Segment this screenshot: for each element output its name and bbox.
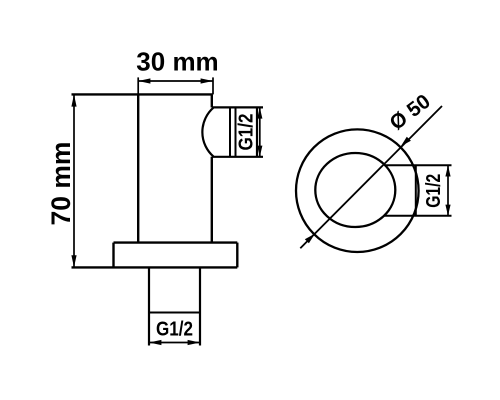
side outlet G1/2 dimension arrow top <box>257 107 262 118</box>
base plate right edge <box>236 243 238 268</box>
base plate top edge <box>114 241 238 243</box>
bottom G1/2 right arrow <box>188 340 200 345</box>
30 mm left extension line <box>137 77 139 94</box>
side view G1/2 dimension line <box>447 165 449 216</box>
side outlet G1/2 dimension line <box>259 107 261 156</box>
side outlet top edge <box>212 106 263 108</box>
70 mm bottom arrow <box>71 255 76 267</box>
outer circle (side view) <box>296 129 419 252</box>
base plate bottom edge with 70mm bottom extension line <box>72 266 238 268</box>
side outlet groove line 1 <box>229 107 231 156</box>
bottom G1/2 dimension line <box>149 342 200 344</box>
body left edge <box>137 94 139 242</box>
side view G1/2 arrow top <box>445 165 450 176</box>
side outlet bottom edge <box>212 156 263 158</box>
diameter leader line <box>300 106 442 248</box>
side view pipe bottom edge <box>384 215 452 217</box>
side view pipe top edge <box>385 164 452 166</box>
svg-text:G1/2: G1/2 <box>235 114 257 151</box>
side outlet G1/2 dimension arrow bottom <box>257 146 262 157</box>
70 mm dimension line <box>73 94 75 267</box>
body right edge upper segment <box>211 94 213 107</box>
inner circle (side view) <box>315 153 395 227</box>
side outlet groove line 2 <box>235 107 237 156</box>
diameter arrow upper-right <box>401 137 411 147</box>
30 mm left arrow <box>138 78 150 83</box>
svg-text:70 mm: 70 mm <box>46 142 76 226</box>
side view G1/2 arrow bottom <box>445 205 450 216</box>
bottom pipe thread line <box>149 312 200 314</box>
side outlet dome arc <box>202 108 213 157</box>
bottom G1/2 left arrow <box>149 340 161 345</box>
body top edge with 70mm top extension line <box>72 93 213 95</box>
bottom pipe left edge <box>148 267 150 345</box>
side outlet right end edge <box>256 107 258 156</box>
70 mm top arrow <box>71 94 76 106</box>
svg-text:30 mm: 30 mm <box>136 47 218 77</box>
30 mm right arrow <box>201 78 213 83</box>
svg-text:G1/2: G1/2 <box>423 174 445 208</box>
bottom pipe right edge <box>199 267 201 345</box>
diameter arrow lower-left <box>305 234 315 244</box>
body right edge lower segment <box>211 157 213 243</box>
side view pipe end edge <box>415 166 417 215</box>
base plate left edge <box>112 243 114 268</box>
30 mm dimension line <box>138 80 213 82</box>
30 mm right extension line <box>212 77 214 94</box>
svg-text:G1/2: G1/2 <box>156 319 193 341</box>
